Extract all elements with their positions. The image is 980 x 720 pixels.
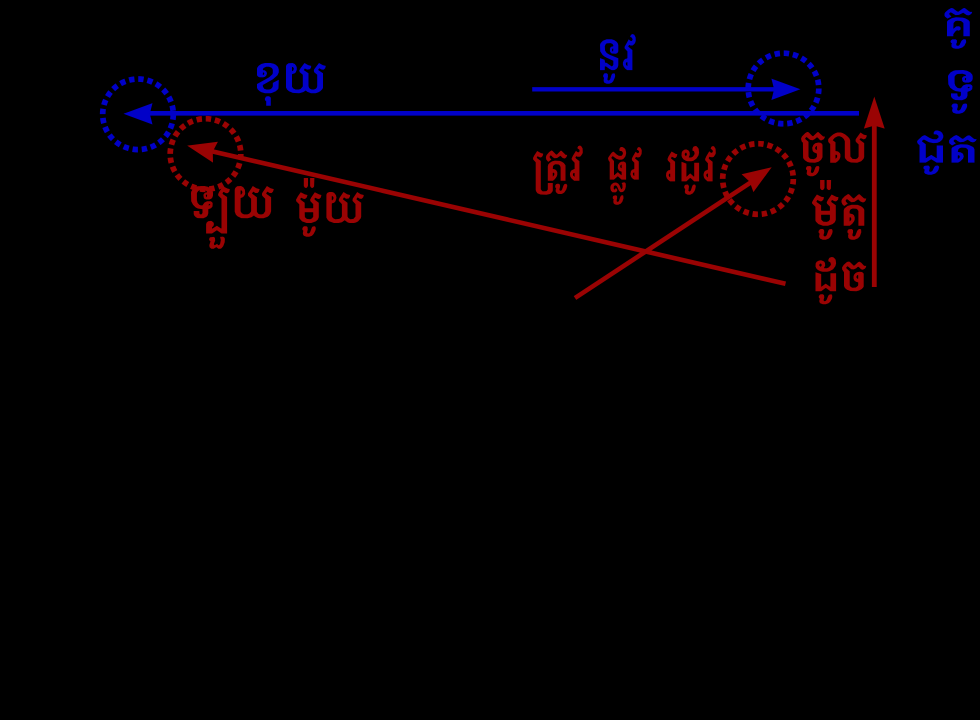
blue dotted circle (right) xyxy=(748,53,819,124)
blue word "គូ" xyxy=(945,8,973,49)
red long diagonal line (to left red circle) xyxy=(196,148,786,284)
red word "ទ្បួយ" xyxy=(191,186,274,249)
red word "ត្រូវ" xyxy=(533,146,583,195)
red word "ម៉ូតូ" xyxy=(812,180,866,240)
blue upper arrow shaft xyxy=(532,87,790,91)
red vertical arrow shaft xyxy=(872,110,877,287)
red word "ចូល" xyxy=(801,132,867,176)
blue word "នូវ" xyxy=(600,34,636,84)
red dotted circle (left) xyxy=(170,119,241,190)
red up-right arrowhead xyxy=(742,167,772,192)
red diagonal line (to right red circle) xyxy=(575,173,765,298)
long blue horizontal line xyxy=(138,111,859,116)
blue upper arrowhead (pointing right) xyxy=(771,79,800,100)
red word "ដូច" xyxy=(816,257,867,304)
blue dotted circle (left, around left arrow tip) xyxy=(103,79,174,150)
blue word "ទូ" xyxy=(948,70,973,114)
red vertical arrowhead (pointing up) xyxy=(864,97,885,129)
blue word "ខុយ" xyxy=(257,63,326,106)
red left arrowhead xyxy=(187,142,218,163)
red dotted circle (right) xyxy=(723,144,794,215)
blue word "ជូត" xyxy=(917,131,977,175)
red word "ម៉ូយ" xyxy=(296,178,364,237)
red word "រដូវ" xyxy=(666,146,716,195)
blue left arrowhead on long line xyxy=(124,103,153,124)
red word "ផ្លូវ" xyxy=(608,147,642,205)
